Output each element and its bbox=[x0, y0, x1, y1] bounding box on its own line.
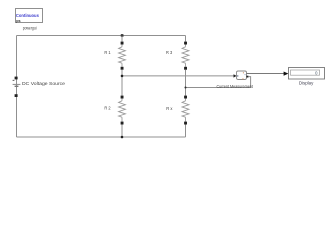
resistor R3 bbox=[182, 42, 189, 70]
display block U_Disp bbox=[289, 68, 325, 80]
wire Rx bottom stub bbox=[185, 125, 187, 138]
CM minus port pad bbox=[246, 76, 248, 78]
wire R3 bottom to Rx top (node D) bbox=[185, 70, 187, 96]
svg-text:R 3: R 3 bbox=[166, 50, 173, 55]
battery long plate bbox=[13, 83, 21, 85]
svg-text:DC Voltage Source: DC Voltage Source bbox=[22, 81, 66, 86]
junction node C dot bbox=[121, 136, 124, 139]
- terminal port bbox=[15, 94, 18, 97]
CM input port pad bbox=[234, 74, 237, 77]
DC voltage source V1 bbox=[13, 77, 21, 97]
svg-text:Continuous: Continuous bbox=[16, 13, 40, 18]
signal wire CM to Display bbox=[247, 73, 285, 75]
svg-text:Display: Display bbox=[299, 80, 314, 85]
current measurement block U_CM bbox=[237, 71, 247, 80]
wire R1 bottom to R2 top (node B) bbox=[121, 70, 123, 96]
resistor R1 bbox=[119, 42, 126, 70]
wire bottom (node C) bbox=[17, 136, 186, 138]
wire R2 bottom stub bbox=[121, 125, 123, 138]
wire R1 top stub bbox=[121, 36, 123, 42]
junction node D dot bbox=[184, 86, 186, 88]
wire top (node A) bbox=[17, 35, 186, 37]
svg-text:powergui: powergui bbox=[23, 26, 37, 31]
wire CM minus loop to node D bbox=[186, 77, 251, 88]
+ terminal port bbox=[15, 77, 18, 80]
plus sign bbox=[13, 79, 15, 81]
powergui block U_powergui bbox=[16, 9, 43, 24]
junction node B dot bbox=[121, 75, 124, 78]
junction node A dot bbox=[121, 34, 124, 37]
battery short plate bbox=[15, 85, 19, 87]
svg-text:R 1: R 1 bbox=[104, 50, 111, 55]
svg-text:ps: ps bbox=[16, 19, 20, 23]
arrowhead into Display bbox=[284, 72, 289, 76]
wire R3 top stub bbox=[185, 36, 187, 42]
resistor Rx bbox=[182, 96, 189, 125]
svg-text:Current Measurement: Current Measurement bbox=[216, 84, 253, 89]
wire node B to current measurement + bbox=[122, 75, 234, 77]
wire left bbox=[16, 36, 18, 138]
svg-text:R x: R x bbox=[166, 106, 173, 111]
svg-text:R 2: R 2 bbox=[104, 106, 111, 111]
resistor R2 bbox=[119, 96, 126, 125]
